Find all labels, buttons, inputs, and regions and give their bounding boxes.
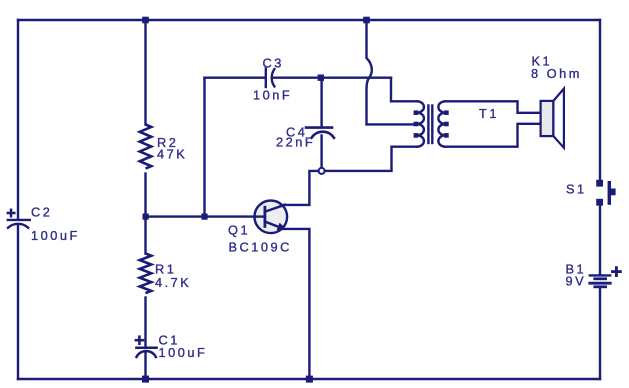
capacitor C2: [8, 210, 30, 228]
wire C3 left horizontal: [205, 76, 266, 78]
node ring junction collector: [319, 168, 325, 174]
svg-text:S1: S1: [566, 182, 587, 197]
wire secondary bottom lead to speaker: [445, 124, 541, 147]
svg-text:22nF: 22nF: [276, 135, 315, 150]
wire C3 right horizontal: [273, 76, 391, 78]
svg-text:Q1: Q1: [228, 223, 250, 238]
battery B1: [590, 268, 621, 287]
node junction base-C3: [201, 214, 207, 220]
svg-text:100uF: 100uF: [31, 228, 80, 243]
capacitor C1: [136, 337, 157, 357]
wire C3 corner to primary top: [391, 78, 418, 102]
wire top rail: [18, 19, 600, 21]
resistor R2: [140, 125, 152, 169]
wire left rail lower (C2 to bottom): [17, 225, 19, 380]
node junction base-left: [143, 214, 149, 220]
node junction tap-top rail: [363, 17, 370, 24]
wire ring to transformer primary bottom: [325, 147, 418, 171]
transformer T1 secondary nubs: [444, 110, 449, 137]
svg-text:47K: 47K: [157, 147, 187, 162]
transformer T1 primary winding: [417, 101, 424, 146]
wire R2 top lead from top rail: [144, 20, 146, 125]
svg-text:T1: T1: [479, 106, 499, 121]
wire C4 bottom lead: [320, 136, 322, 168]
svg-text:10nF: 10nF: [253, 88, 292, 103]
wire center tap from top rail with crossover hop: [367, 20, 416, 124]
capacitor C4: [306, 128, 334, 138]
node junction emitter-bottom rail: [306, 376, 313, 383]
wire right rail upper (top rail to S1): [599, 20, 601, 180]
switch S1: [596, 180, 615, 206]
wire R1 bottom lead to C1: [144, 298, 146, 348]
wire left rail upper (to C2): [17, 20, 19, 219]
wire R1 top lead: [144, 217, 146, 254]
resistor R1: [140, 254, 152, 294]
transformer T1 secondary winding: [438, 101, 445, 146]
wire emitter to bottom rail: [285, 229, 310, 379]
speaker K1: [541, 89, 564, 148]
transformer T1 primary nubs: [414, 110, 419, 137]
wire secondary top lead to speaker: [445, 101, 541, 113]
wire C4 top lead: [320, 78, 322, 127]
node junction C1-bottom rail: [142, 376, 149, 383]
svg-text:8 Ohm: 8 Ohm: [531, 66, 582, 81]
svg-text:100uF: 100uF: [159, 345, 208, 360]
wire ring to collector jog: [284, 171, 318, 205]
svg-text:C3: C3: [263, 56, 284, 71]
capacitor C3: [266, 69, 275, 87]
transformer T1 core: [428, 106, 432, 144]
transistor Q1: [254, 201, 287, 234]
wire bottom rail: [18, 378, 600, 380]
wire right rail lower (B1 to bottom rail): [599, 288, 601, 379]
svg-text:BC109C: BC109C: [229, 240, 292, 255]
node junction R2-top rail: [142, 17, 149, 24]
wire C1 bottom lead: [144, 353, 146, 380]
wire right rail middle (S1 to B1): [599, 205, 601, 274]
wire base rail: [146, 215, 256, 217]
svg-text:4.7K: 4.7K: [155, 275, 191, 290]
wire R2 bottom lead to base node: [144, 174, 146, 217]
wire C3 left vertical to base: [203, 78, 205, 217]
node junction C3-C4: [318, 75, 324, 81]
svg-text:9V: 9V: [566, 274, 587, 289]
svg-text:C2: C2: [31, 205, 52, 220]
